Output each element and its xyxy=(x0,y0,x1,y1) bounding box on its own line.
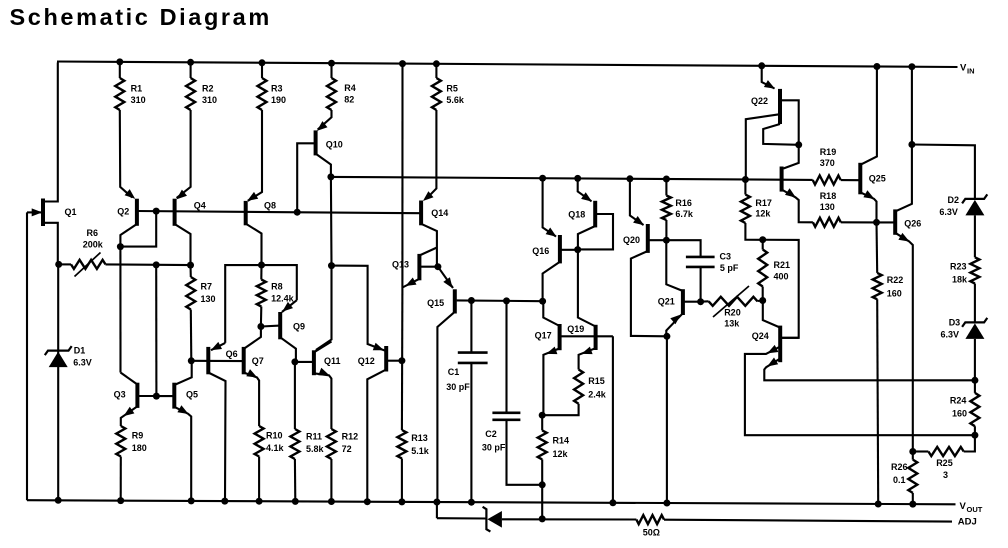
svg-text:Q19: Q19 xyxy=(567,324,584,334)
transistor Q24 bar xyxy=(778,326,782,363)
node Q5 emitter bottom rail xyxy=(188,497,195,504)
svg-text:160: 160 xyxy=(952,409,967,419)
svg-text:Q10: Q10 xyxy=(326,139,343,149)
wire R17 leads and run to Q24 base xyxy=(745,180,798,338)
label Q17 xyxy=(535,331,552,341)
label R12 xyxy=(342,432,359,455)
wire Q18 base loop xyxy=(578,214,613,249)
label Q1 xyxy=(65,207,77,217)
svg-text:R19: R19 xyxy=(820,147,837,157)
svg-text:30 pF: 30 pF xyxy=(482,443,506,453)
wire R5 top lead xyxy=(435,64,437,78)
arrow Q16 emitter xyxy=(546,228,557,237)
wire Q10 collector column to rail B and Q11 xyxy=(316,177,332,350)
wire Q24 emitter1 loop xyxy=(745,347,975,436)
label R17 xyxy=(755,198,772,218)
svg-text:Q14: Q14 xyxy=(431,208,448,218)
wire Q10 base jog xyxy=(297,143,315,212)
wire C3 bottom lead xyxy=(700,267,702,302)
node R9 bottom rail xyxy=(117,497,124,504)
svg-text:OUT: OUT xyxy=(967,505,983,514)
svg-text:5 pF: 5 pF xyxy=(720,263,739,273)
node rail B R8/Q8 xyxy=(258,262,265,269)
label R25 xyxy=(936,458,953,480)
label Q14 xyxy=(431,208,448,218)
svg-text:Q20: Q20 xyxy=(623,235,640,245)
wire Q1 gate feedback to bottom rail xyxy=(26,212,28,500)
node rail B x331 xyxy=(328,262,335,269)
transistor Q25 bar xyxy=(858,163,862,195)
wire Q24 base xyxy=(780,337,799,339)
transistor Q8 bar xyxy=(244,201,248,225)
wire Q25 collector up xyxy=(860,67,877,165)
wire Q15 base rail xyxy=(457,299,543,302)
node D3 / R24 top / Q24 emitter2 line xyxy=(971,377,978,384)
arrow Q13 emitter xyxy=(405,278,416,287)
node Q22 base/collector tie xyxy=(795,141,802,148)
node R21 top xyxy=(759,236,766,243)
wire V_IN top rail xyxy=(57,62,958,68)
svg-text:200k: 200k xyxy=(83,240,104,250)
node Q3/Q5 base xyxy=(153,393,160,400)
svg-text:Q9: Q9 xyxy=(293,321,305,331)
transistor Q15 bar xyxy=(453,289,457,313)
wire Q19 emitter diag xyxy=(579,348,596,369)
wire Q7 emitter down xyxy=(244,373,259,427)
transistor Q4 bar xyxy=(173,199,177,226)
arrow Q14 emitter xyxy=(423,191,434,201)
resistor R9 180 xyxy=(116,426,125,457)
svg-text:Q3: Q3 xyxy=(114,390,126,400)
svg-text:82: 82 xyxy=(344,95,354,105)
label Q6 xyxy=(226,349,238,359)
transistor Q22 bar xyxy=(778,89,782,124)
svg-text:R3: R3 xyxy=(271,83,283,93)
wire Q21 base xyxy=(683,301,701,303)
wire R23 to D3 xyxy=(974,284,976,323)
label Q3 xyxy=(114,390,126,400)
wire column x156 down to Q3/Q5 base xyxy=(155,265,157,396)
svg-text:R5: R5 xyxy=(446,84,458,94)
node rail C Q20 xyxy=(626,175,633,182)
node Q20 collector / Q21 emitter xyxy=(663,333,670,340)
wire Q22 emitter lead xyxy=(762,66,775,89)
label R24 xyxy=(950,395,967,418)
label R26 xyxy=(891,462,908,485)
wire Q22 base loop xyxy=(780,100,799,145)
wire Q17 collector up xyxy=(543,301,559,326)
svg-text:130: 130 xyxy=(820,202,835,212)
node R7 bottom / Q6 base / Q5 collector xyxy=(188,357,195,364)
node Q12 collector bottom rail xyxy=(364,498,371,505)
svg-text:6.3V: 6.3V xyxy=(941,330,960,340)
svg-text:IN: IN xyxy=(967,67,975,76)
svg-text:Q11: Q11 xyxy=(324,356,341,366)
wire Q23 collector from Q22 node xyxy=(783,145,798,169)
resistor R6 200k xyxy=(71,260,106,269)
wire Q4 collector down xyxy=(175,224,191,265)
wire R12 bottom lead xyxy=(330,459,332,502)
svg-text:3: 3 xyxy=(943,470,948,480)
wire Q5 base xyxy=(156,395,174,397)
wire Q5 emitter down xyxy=(174,407,191,501)
wire C2 bottom lead xyxy=(507,420,543,485)
node Q21 emitter V_OUT rail xyxy=(663,500,670,507)
node rail C R16 xyxy=(663,176,670,183)
arrow Q25 emitter xyxy=(863,190,874,199)
title text xyxy=(10,4,272,30)
svg-text:R11: R11 xyxy=(306,432,322,442)
label Q24 xyxy=(752,331,769,341)
wire Q1 source stub xyxy=(45,223,58,265)
transistor Q6 bar xyxy=(206,347,210,374)
label Q15 xyxy=(427,298,444,308)
svg-text:R7: R7 xyxy=(201,282,213,292)
wire Q9 emitter diag xyxy=(282,300,297,312)
svg-text:6.7k: 6.7k xyxy=(675,209,694,219)
wire Q18 collector down xyxy=(578,226,595,249)
wire ADJ line right segment xyxy=(664,520,952,522)
svg-text:30 pF: 30 pF xyxy=(446,382,470,392)
node C3 bottom / Q21 base / R20 xyxy=(697,298,704,305)
node Q13 base / Q14 collector / Q15 emitter xyxy=(434,263,441,270)
svg-text:R14: R14 xyxy=(553,436,570,446)
resistor R14 12k xyxy=(538,430,547,459)
wire Q12 collector down xyxy=(367,370,386,502)
wire Q15 base xyxy=(455,299,457,301)
resistor R2 310 xyxy=(186,78,195,110)
wire Q21 emitter to V_OUT xyxy=(666,336,668,503)
svg-text:R4: R4 xyxy=(344,83,356,93)
resistor R20 13k variable xyxy=(709,297,758,306)
svg-text:72: 72 xyxy=(342,444,352,454)
node C1 tap xyxy=(468,297,475,304)
wire Q5 collector up xyxy=(174,361,191,385)
svg-text:Schematic Diagram: Schematic Diagram xyxy=(10,4,272,30)
arrow Q23 emitter xyxy=(785,188,796,197)
wire Q20 base xyxy=(648,239,667,241)
wire Q23 emitter to R18 xyxy=(782,190,813,223)
svg-text:R22: R22 xyxy=(887,275,904,285)
label Q19 xyxy=(567,324,584,334)
transistor Q20 bar xyxy=(646,224,650,253)
label R1 xyxy=(131,83,146,105)
node rail C Q10 collector xyxy=(327,173,334,180)
resistor R21 400 xyxy=(758,250,767,287)
diode D2 zener 6.3V xyxy=(962,194,987,215)
node top rail junction R2 xyxy=(187,59,194,66)
resistor R19 370 (in rail C) xyxy=(813,176,841,185)
arrow Q24 emitter1 xyxy=(767,345,778,354)
arrow Q11 emitter xyxy=(318,368,329,376)
svg-text:R10: R10 xyxy=(266,431,283,441)
wire Q24 collector up xyxy=(763,301,780,328)
wire Q26 base xyxy=(877,221,896,223)
svg-text:C1: C1 xyxy=(448,367,460,377)
svg-text:12k: 12k xyxy=(553,449,569,459)
transistor Q26 bar xyxy=(893,209,897,234)
wire R18 right lead xyxy=(841,221,877,223)
arrow Q20 emitter xyxy=(633,216,644,225)
wire Q3 collector up xyxy=(121,373,138,385)
wire R20 arrow slash xyxy=(713,286,749,317)
resistor R22 160 xyxy=(873,273,882,299)
resistor R12 72 xyxy=(327,429,336,459)
svg-text:Q6: Q6 xyxy=(226,349,238,359)
wire R5 bottom lead to Q14 emitter xyxy=(426,110,436,199)
svg-text:5.1k: 5.1k xyxy=(411,446,430,456)
resistor R3 190 xyxy=(258,78,267,110)
label R5 xyxy=(446,84,465,106)
label R6 xyxy=(83,228,104,250)
svg-text:R18: R18 xyxy=(820,191,837,201)
resistor R16 6.7k xyxy=(662,196,671,221)
resistor R15 2.4k xyxy=(574,370,583,404)
node Q15 collector V_OUT rail xyxy=(433,499,440,506)
node rail B R7/Q4 xyxy=(187,262,194,269)
node Q19 base V_OUT rail xyxy=(609,499,616,506)
node R12 bottom rail xyxy=(328,498,335,505)
svg-text:R8: R8 xyxy=(271,281,283,291)
svg-text:R21: R21 xyxy=(774,260,791,270)
svg-text:190: 190 xyxy=(271,95,286,105)
wire ADJ left segment xyxy=(437,517,487,519)
svg-text:130: 130 xyxy=(201,294,216,304)
arrow Q1 gate xyxy=(32,208,43,216)
label C2 xyxy=(482,429,506,453)
svg-text:310: 310 xyxy=(202,95,217,105)
wire Q17/Q19 base to V_OUT xyxy=(612,336,614,503)
wire D3 to R24 node xyxy=(974,339,976,380)
svg-text:Q1: Q1 xyxy=(65,207,77,217)
arrow Q5 emitter xyxy=(177,405,188,414)
label Q8 xyxy=(264,200,276,210)
resistor R4 82 xyxy=(327,78,336,110)
wire Q26 collector top to rail xyxy=(911,67,913,145)
node R22 V_OUT rail xyxy=(875,501,882,508)
label Q25 xyxy=(869,173,886,183)
resistor R8 12.4k xyxy=(257,280,266,307)
wire Q25 emitter down xyxy=(860,192,876,222)
label R14 xyxy=(553,436,570,460)
resistor R11 5.8k xyxy=(290,429,299,459)
svg-text:R9: R9 xyxy=(132,431,144,441)
arrow Q2 emitter xyxy=(125,189,136,199)
svg-text:V: V xyxy=(960,63,967,74)
node top rail junction R4 xyxy=(328,60,335,67)
wire Q9 base xyxy=(261,325,280,328)
wire Q18 emitter lead xyxy=(578,178,592,201)
wire R8 bottom lead xyxy=(260,307,262,327)
svg-text:12.4k: 12.4k xyxy=(271,293,295,303)
transistor Q5 bar xyxy=(172,383,176,409)
svg-text:R20: R20 xyxy=(724,307,741,317)
transistor Q21 bar xyxy=(681,289,685,315)
wire R14 top lead xyxy=(541,415,543,430)
node top rail junction Q22 xyxy=(758,62,765,69)
node Q1 source / R6 left xyxy=(55,261,62,268)
label R9 xyxy=(132,431,147,454)
wire R1 bottom lead to Q2 emitter xyxy=(120,110,132,198)
svg-text:5.8k: 5.8k xyxy=(306,444,325,454)
svg-text:R12: R12 xyxy=(342,432,359,442)
node rail C Q16 xyxy=(539,175,546,182)
svg-text:4.1k: 4.1k xyxy=(266,443,285,453)
wire R11 top lead xyxy=(294,362,296,429)
arrow Q10 emitter xyxy=(317,121,328,131)
node R10 bottom rail xyxy=(256,498,263,505)
node top rail junction R5 xyxy=(433,60,440,67)
arrow Q4 emitter xyxy=(176,190,187,200)
wire C3 top lead xyxy=(666,240,700,257)
wire Q1 gate lead xyxy=(27,211,41,213)
node top rail junction Q13 column xyxy=(399,60,406,67)
svg-text:Q13: Q13 xyxy=(392,260,409,270)
label Q22 xyxy=(751,96,768,106)
resistor R13 5.1k xyxy=(397,430,406,459)
wire Q16 base xyxy=(560,249,578,251)
label R7 xyxy=(201,282,216,305)
wire Q16 emitter lead xyxy=(543,178,556,236)
wire R4 top lead xyxy=(330,63,332,78)
node Q9 collector / Q11 base / R11 xyxy=(291,358,298,365)
node top rail junction R3 xyxy=(259,59,266,66)
label Q18 xyxy=(568,209,585,219)
wire Q9 collector down xyxy=(280,337,296,362)
transistor Q17 bar xyxy=(558,324,562,350)
node Q25 emitter / R18 / Q26 base / R22 xyxy=(873,219,880,226)
wire Q3 base xyxy=(137,395,156,397)
resistor R5 5.6k xyxy=(432,78,441,110)
wire Q14 collector down xyxy=(421,224,437,267)
wire C1 bottom lead xyxy=(470,363,472,502)
wire R6 arrow slash xyxy=(75,253,101,277)
node R21 bottom / R20 / Q24 collector xyxy=(759,297,766,304)
diode D1 zener 6.3V xyxy=(45,346,72,367)
svg-text:Q16: Q16 xyxy=(532,246,549,256)
node C1 bottom rail xyxy=(468,499,475,506)
label ADJ terminal xyxy=(958,517,977,528)
svg-text:Q8: Q8 xyxy=(264,200,276,210)
arrow Q21 emitter xyxy=(670,315,681,325)
wire Q21 collector up xyxy=(666,240,683,291)
wire R2 bottom lead to Q4 emitter xyxy=(177,110,191,198)
wire R9 bottom lead xyxy=(120,457,122,501)
diode zener on ADJ line xyxy=(483,507,502,532)
resistor R25 3 xyxy=(928,447,963,456)
node top rail junction R1 xyxy=(116,58,123,65)
wire Q21 emitter diag xyxy=(666,313,683,336)
arrow Q8 emitter xyxy=(247,192,258,201)
svg-text:ADJ: ADJ xyxy=(958,517,977,528)
label R8 xyxy=(271,281,295,303)
wire base rail xyxy=(137,211,421,213)
wire R13 bottom lead xyxy=(401,459,403,502)
transistor Q2 bar xyxy=(135,199,139,226)
wire Q17/Q19 base line xyxy=(560,335,613,337)
transistor Q16 bar xyxy=(558,235,562,263)
svg-text:R16: R16 xyxy=(675,198,692,208)
node base rail Q2 collector tie xyxy=(153,208,160,215)
wire R2 top lead xyxy=(190,62,192,78)
svg-text:R13: R13 xyxy=(411,433,428,443)
label R4 xyxy=(344,83,356,105)
svg-text:Q5: Q5 xyxy=(186,389,198,399)
wire Q15 collector to ADJ line xyxy=(436,502,438,518)
label C1 xyxy=(446,367,470,392)
svg-text:C2: C2 xyxy=(485,429,497,439)
wire Q1 source to D1 to bottom xyxy=(57,264,59,500)
svg-text:13k: 13k xyxy=(724,318,740,328)
node Q26 collector / D2 line xyxy=(908,141,915,148)
svg-text:R17: R17 xyxy=(755,198,772,208)
svg-text:R23: R23 xyxy=(950,261,967,271)
svg-text:Q7: Q7 xyxy=(252,356,264,366)
node R25 left / Q26 emitter column xyxy=(909,448,916,455)
svg-text:D3: D3 xyxy=(949,317,961,327)
label R18 xyxy=(820,191,837,212)
label Q2 xyxy=(117,207,129,217)
wire R8 top lead xyxy=(260,265,262,280)
wire column x402 top rail to Q13 emitter xyxy=(401,64,403,288)
transistor Q1 JFET body xyxy=(41,199,45,227)
wire Q22 collector B loop xyxy=(763,124,799,145)
capacitor C3 5pF xyxy=(686,257,715,267)
resistor 50 ohm xyxy=(636,515,664,524)
transistor Q11 bar xyxy=(312,350,316,375)
wire R3 top lead xyxy=(261,63,263,78)
wire Q13 collector up xyxy=(419,248,437,256)
svg-text:400: 400 xyxy=(774,272,789,282)
svg-text:6.3V: 6.3V xyxy=(73,358,92,368)
arrow Q24 emitter2 xyxy=(767,358,778,367)
wire D2 to R23 xyxy=(974,215,976,257)
node R8 bottom / Q9 base / Q7 collector xyxy=(257,323,264,330)
node base rail Q10 base tie xyxy=(294,209,301,216)
svg-text:Q4: Q4 xyxy=(194,200,206,210)
svg-text:2.4k: 2.4k xyxy=(588,389,607,399)
wire R7 leads xyxy=(189,265,192,361)
svg-text:R24: R24 xyxy=(950,395,967,405)
svg-text:160: 160 xyxy=(887,289,902,299)
wire Q8 collector down xyxy=(246,224,262,265)
node Q16/Q17 collector tie xyxy=(539,298,546,305)
node R13 bottom rail xyxy=(398,498,405,505)
wire D2 line from Q26 collector xyxy=(912,145,975,199)
wire R11 bottom lead xyxy=(294,459,296,501)
transistor Q3 bar xyxy=(135,383,139,408)
wire Q6 collector down xyxy=(208,373,225,502)
wire R14 bottom lead to ADJ xyxy=(541,459,543,519)
arrow Q12 emitter xyxy=(373,343,384,351)
wire Q24 emitter2 line xyxy=(764,359,975,381)
wire R24 leads xyxy=(974,380,976,435)
wire Q11 collector up xyxy=(314,342,332,353)
label Q12 xyxy=(358,356,375,366)
svg-text:310: 310 xyxy=(131,95,146,105)
transistor Q12 bar xyxy=(384,346,388,372)
label VOUT terminal xyxy=(960,501,983,514)
wire Q2 collector column down to Q3 xyxy=(119,247,121,373)
wire Q11 emitter down xyxy=(314,373,332,429)
transistor Q18 bar xyxy=(593,201,597,228)
svg-text:180: 180 xyxy=(132,443,147,453)
wire R25 leads xyxy=(913,435,975,451)
wire Q11 base xyxy=(295,361,314,363)
node top rail junction Q26 xyxy=(908,63,915,70)
resistor R24 160 xyxy=(970,393,979,426)
resistor R1 310 xyxy=(115,78,124,110)
